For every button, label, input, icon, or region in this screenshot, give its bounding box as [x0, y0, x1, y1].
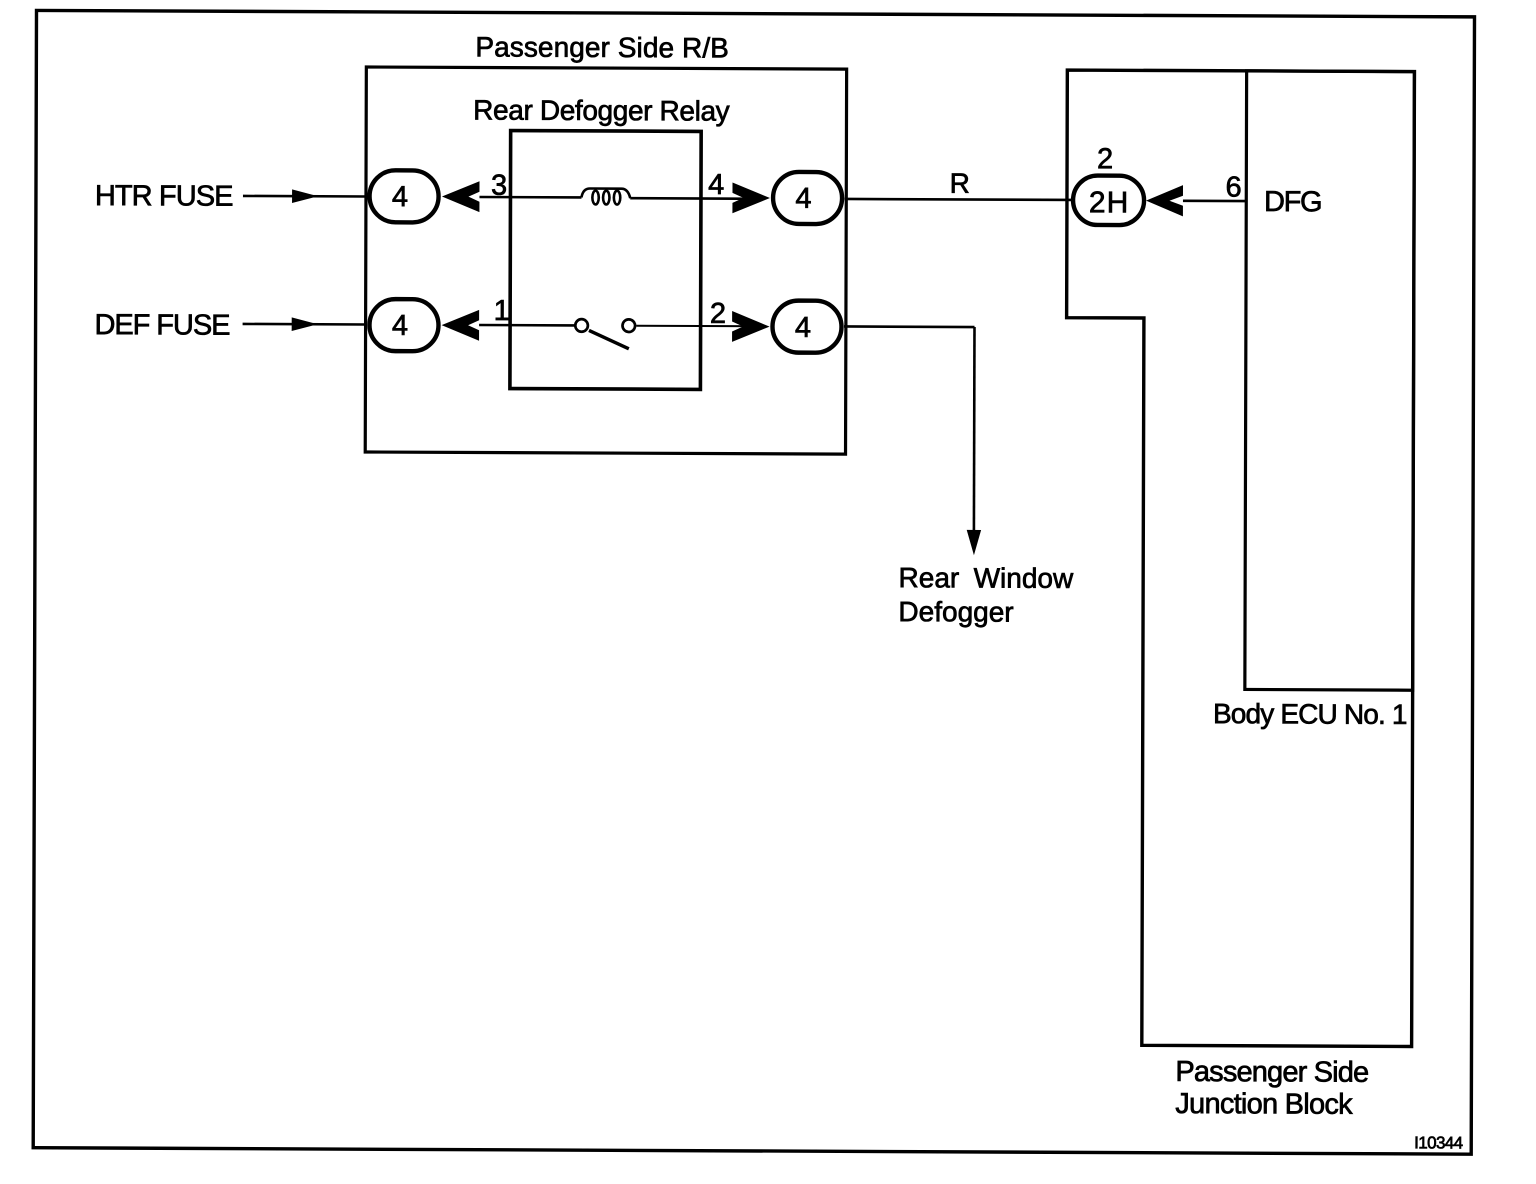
- connector oval 2H: [1073, 175, 1144, 225]
- relay switch contact right: [622, 319, 635, 332]
- arrowhead down: [967, 530, 981, 555]
- svg-text:2H: 2H: [1089, 186, 1129, 219]
- wire pin1 to switch: [479, 324, 575, 327]
- relay coil loops: [592, 191, 598, 205]
- Passenger Side Junction Block outline: [1065, 70, 1415, 1046]
- Passenger Side R/B box: [365, 67, 846, 454]
- connector pin oval 4 (bottom-left): [369, 299, 438, 351]
- relay switch blade: [589, 330, 629, 348]
- chevron arrow into top-left oval: [442, 181, 480, 212]
- Body ECU No. 1 box: [1245, 71, 1415, 690]
- wire 2H to Body ECU pin 6: [1183, 199, 1246, 202]
- relay coil hump: [581, 188, 630, 198]
- svg-text:DFG: DFG: [1264, 186, 1323, 218]
- svg-text:Defogger: Defogger: [898, 596, 1013, 628]
- wire down to rear window defogger: [973, 327, 976, 532]
- connector pin oval 4 (bottom-right): [772, 301, 841, 353]
- svg-text:R: R: [950, 168, 970, 199]
- relay switch contact left: [575, 319, 588, 332]
- svg-text:DEF FUSE: DEF FUSE: [94, 309, 230, 342]
- wire from bottom-right oval to corner: [844, 325, 975, 328]
- svg-text:2: 2: [1097, 143, 1113, 175]
- wire DEF FUSE lead-in: [243, 323, 366, 326]
- wire coil to pin4: [630, 197, 761, 200]
- svg-text:6: 6: [1225, 172, 1241, 204]
- svg-text:I10344: I10344: [1414, 1133, 1463, 1152]
- svg-text:4: 4: [392, 181, 408, 213]
- svg-text:4: 4: [392, 310, 408, 342]
- connector pin oval 4 (top-left): [369, 170, 438, 222]
- svg-text:Window: Window: [974, 563, 1074, 594]
- connector pin oval 4 (top-right): [773, 172, 842, 224]
- chevron arrow into bottom-left oval: [442, 310, 480, 341]
- svg-text:4: 4: [708, 169, 724, 201]
- svg-text:4: 4: [795, 183, 811, 215]
- svg-text:Junction Block: Junction Block: [1175, 1088, 1353, 1121]
- wire HTR FUSE lead-in: [243, 195, 366, 198]
- svg-text:1: 1: [494, 295, 510, 327]
- chevron arrow into bottom-right oval: [732, 311, 770, 342]
- svg-text:Rear Defogger Relay: Rear Defogger Relay: [473, 94, 730, 126]
- svg-text:HTR FUSE: HTR FUSE: [95, 180, 234, 213]
- svg-text:Rear: Rear: [899, 562, 960, 593]
- svg-text:Passenger Side: Passenger Side: [1175, 1056, 1369, 1089]
- wire switch to pin2: [636, 325, 761, 328]
- chevron arrow into 2H oval: [1146, 185, 1183, 216]
- svg-text:2: 2: [710, 298, 726, 330]
- chevron arrow into top-right oval: [732, 182, 770, 213]
- arrow on DEF wire: [292, 317, 318, 331]
- svg-text:Passenger Side R/B: Passenger Side R/B: [475, 31, 729, 63]
- wire pin3 to relay coil: [479, 196, 581, 199]
- svg-text:4: 4: [795, 312, 811, 344]
- relay K1 box: [510, 131, 701, 390]
- svg-text:Body ECU No. 1: Body ECU No. 1: [1213, 698, 1408, 730]
- arrow on HTR wire: [292, 189, 318, 203]
- wire R from R/B to 2H: [845, 199, 1074, 200]
